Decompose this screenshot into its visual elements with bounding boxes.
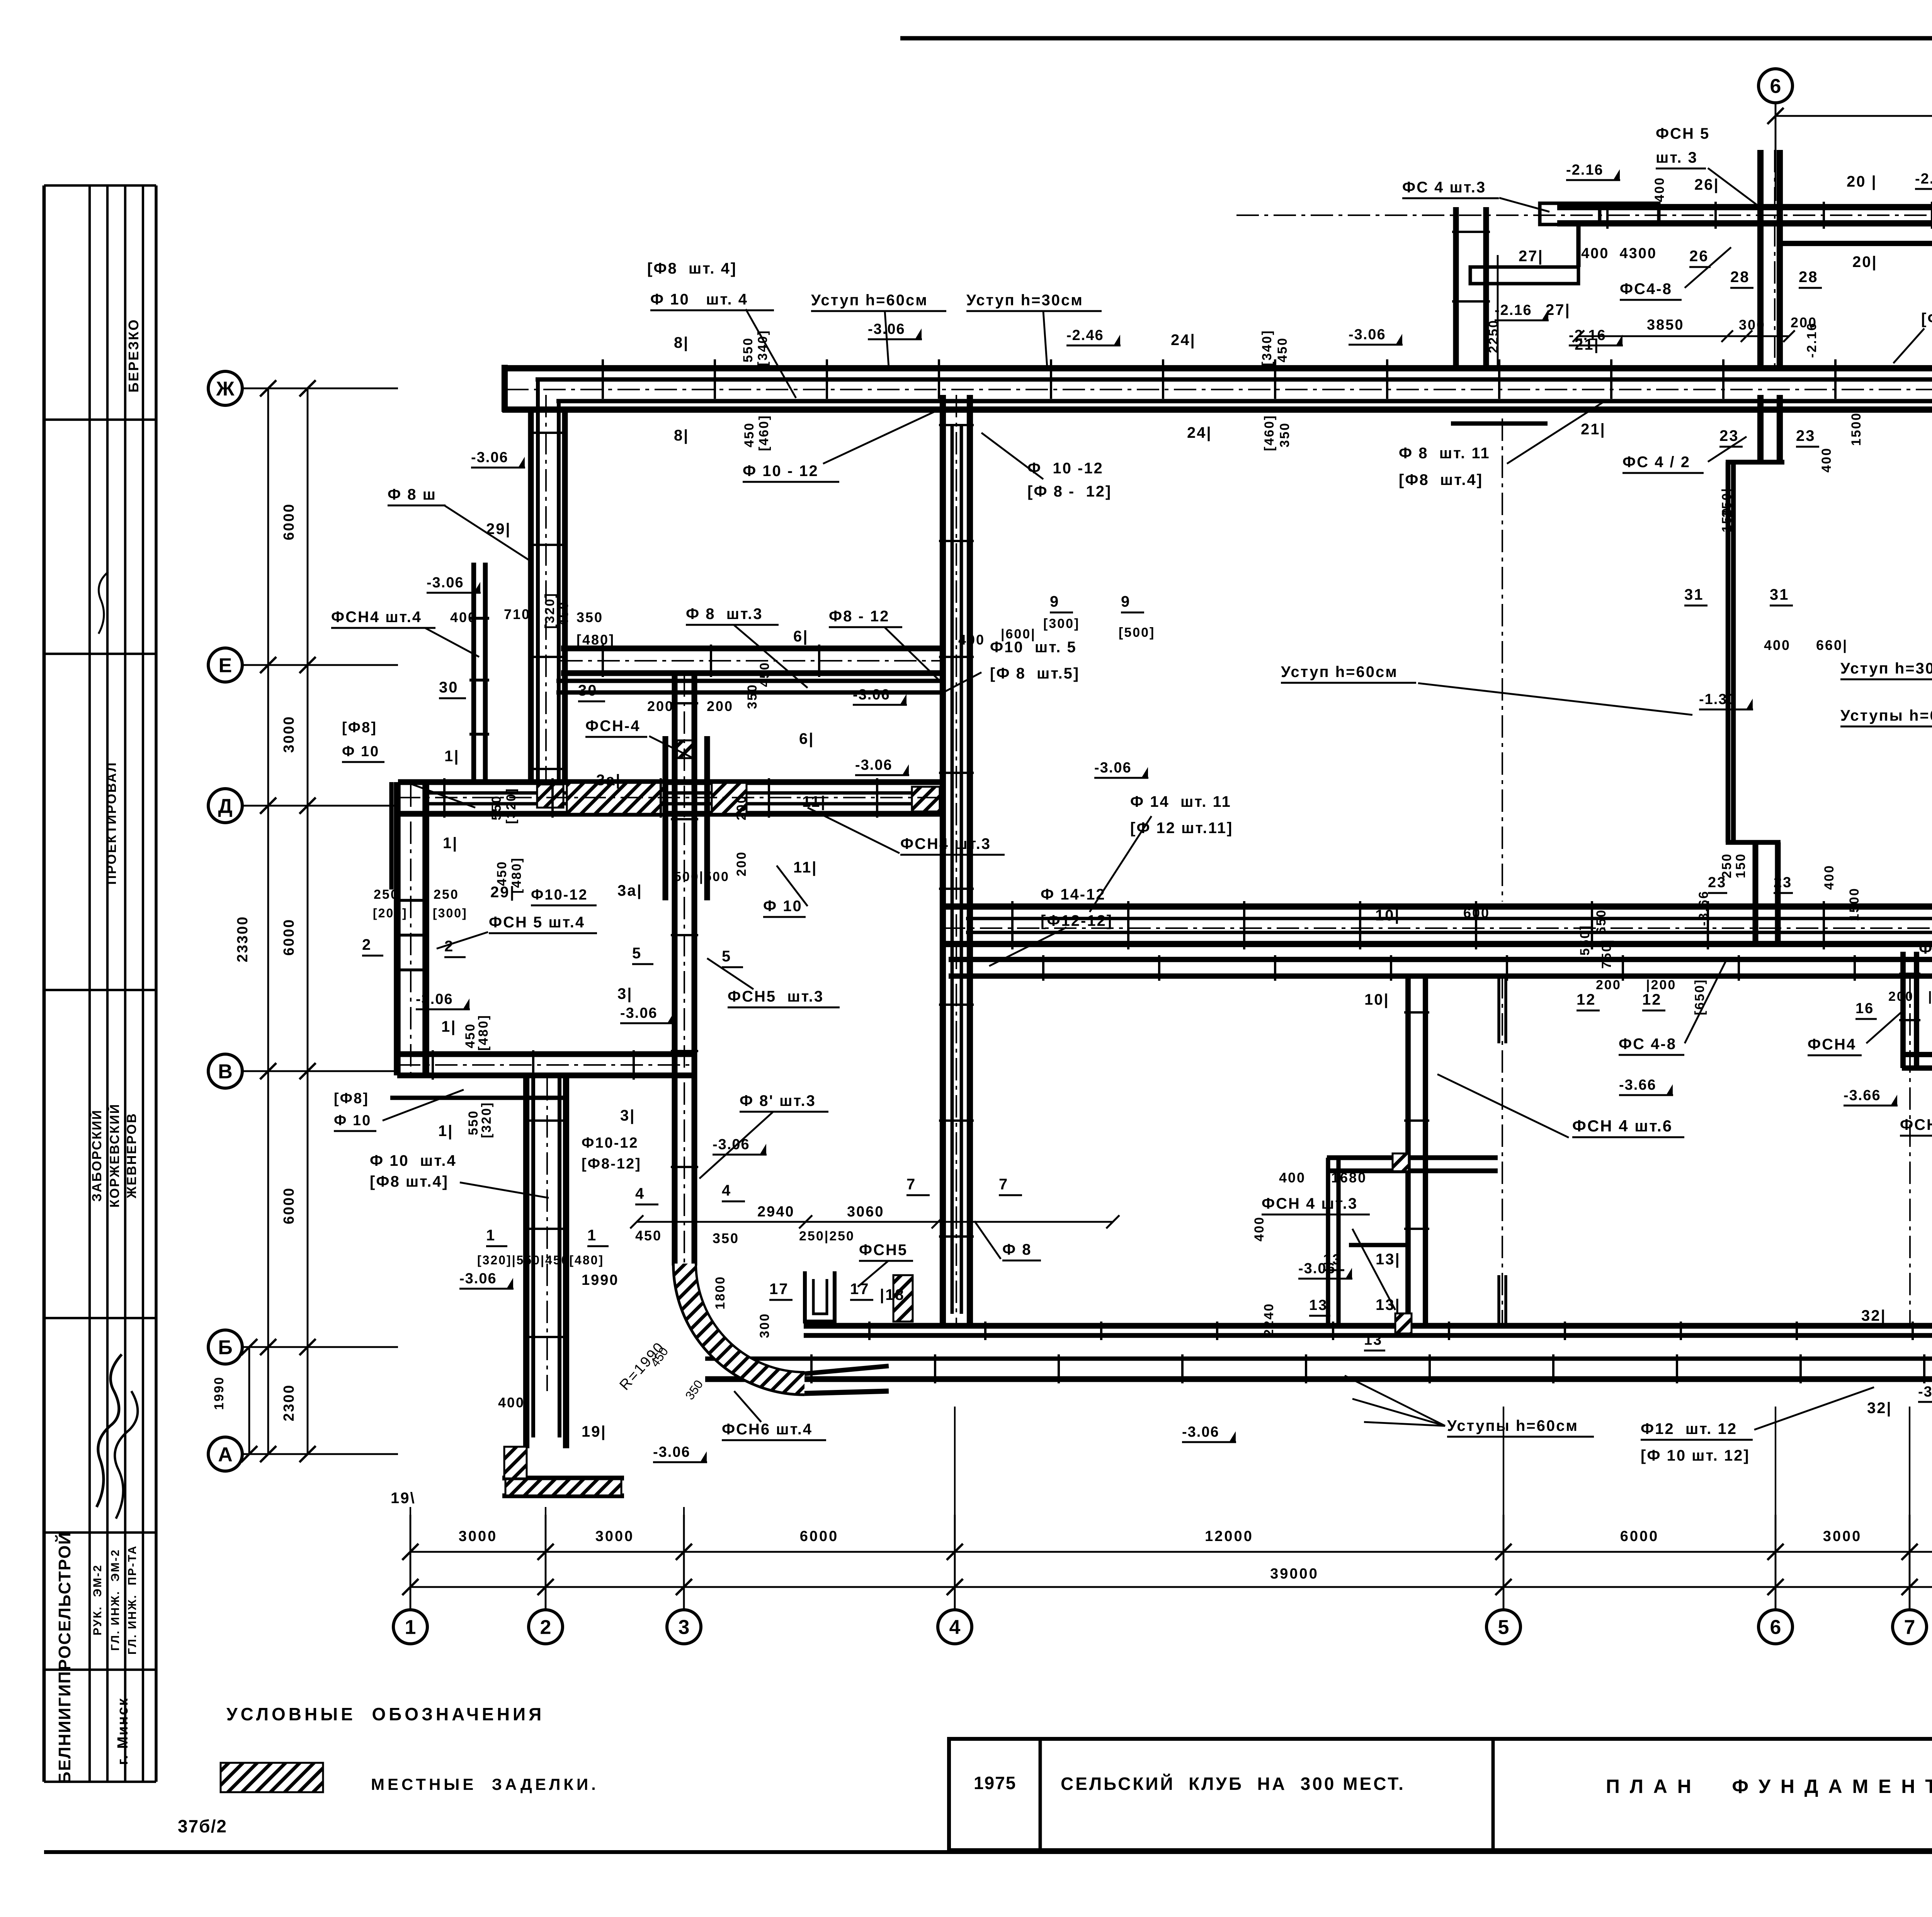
svg-text:[300]: [300] bbox=[433, 906, 468, 920]
svg-text:Ф 10 шт. 4: Ф 10 шт. 4 bbox=[650, 291, 748, 308]
svg-text:6000: 6000 bbox=[800, 1528, 839, 1544]
svg-text:250: 250 bbox=[374, 887, 399, 902]
svg-text:шт. 3: шт. 3 bbox=[1656, 149, 1698, 166]
svg-text:12: 12 bbox=[1577, 991, 1596, 1008]
svg-text:6000: 6000 bbox=[281, 503, 297, 541]
svg-text:13: 13 bbox=[1364, 1332, 1383, 1348]
svg-text:150: 150 bbox=[1733, 853, 1748, 878]
svg-text:П Л А Н Ф У Н Д А М Е Н Т: П Л А Н Ф У Н Д А М Е Н Т О В . bbox=[1606, 1776, 1932, 1797]
svg-text:ГЛ. ИНЖ. ПР-ТА: ГЛ. ИНЖ. ПР-ТА bbox=[126, 1545, 139, 1655]
svg-text:600: 600 bbox=[1463, 905, 1490, 921]
svg-text:13: 13 bbox=[1323, 1252, 1342, 1268]
svg-text:200: 200 bbox=[734, 795, 749, 820]
svg-text:[320]: [320] bbox=[479, 1102, 494, 1138]
svg-text:ФС 4-8: ФС 4-8 bbox=[1619, 1036, 1677, 1053]
svg-text:4: 4 bbox=[722, 1182, 731, 1199]
svg-text:3000: 3000 bbox=[281, 716, 297, 753]
svg-text:3а|: 3а| bbox=[596, 772, 621, 789]
svg-text:250|250: 250|250 bbox=[799, 1229, 855, 1243]
svg-text:3|: 3| bbox=[617, 985, 633, 1002]
svg-text:[Ф8 шт. 4]: [Ф8 шт. 4] bbox=[647, 260, 737, 277]
svg-text:Ф 8: Ф 8 bbox=[1002, 1241, 1032, 1258]
svg-text:400: 400 bbox=[450, 609, 477, 625]
svg-text:1500: 1500 bbox=[1847, 887, 1862, 921]
svg-text:350: 350 bbox=[745, 684, 760, 709]
svg-text:350: 350 bbox=[1277, 422, 1292, 447]
svg-text:[480]: [480] bbox=[577, 632, 615, 648]
svg-text:7: 7 bbox=[999, 1176, 1009, 1193]
svg-text:1|: 1| bbox=[441, 1018, 456, 1035]
svg-text:-2.16: -2.16 bbox=[1566, 162, 1604, 178]
svg-text:21|: 21| bbox=[1575, 336, 1600, 353]
svg-text:Уступы h=60см: Уступы h=60см bbox=[1447, 1417, 1578, 1434]
svg-text:3850: 3850 bbox=[1647, 317, 1684, 333]
svg-text:400 4300: 400 4300 bbox=[1581, 245, 1657, 262]
svg-text:3000: 3000 bbox=[459, 1528, 498, 1544]
svg-text:1|: 1| bbox=[443, 835, 458, 852]
svg-text:3060: 3060 bbox=[847, 1204, 884, 1220]
svg-text:4: 4 bbox=[635, 1185, 645, 1202]
svg-text:450: 450 bbox=[1275, 337, 1290, 362]
svg-text:19\: 19\ bbox=[391, 1490, 416, 1507]
svg-text:[500]: [500] bbox=[1119, 625, 1155, 640]
svg-text:400: 400 bbox=[1279, 1170, 1306, 1186]
svg-text:650: 650 bbox=[1594, 909, 1609, 934]
svg-text:|200: |200 bbox=[1928, 989, 1932, 1004]
svg-text:-1.30: -1.30 bbox=[1699, 691, 1736, 708]
svg-text:-3.06: -3.06 bbox=[855, 757, 893, 773]
svg-text:Ф 8' шт.3: Ф 8' шт.3 bbox=[740, 1092, 816, 1109]
svg-text:400: 400 bbox=[958, 632, 985, 648]
svg-text:г. Минск: г. Минск bbox=[115, 1697, 131, 1765]
svg-text:6: 6 bbox=[1770, 1616, 1781, 1639]
svg-text:2: 2 bbox=[444, 938, 454, 955]
svg-text:[460]: [460] bbox=[1262, 415, 1277, 451]
svg-text:РУК. ЭМ-2: РУК. ЭМ-2 bbox=[91, 1564, 104, 1636]
svg-text:13: 13 bbox=[1309, 1297, 1328, 1313]
svg-text:3000: 3000 bbox=[595, 1528, 634, 1544]
svg-text:Ж: Ж bbox=[216, 378, 235, 400]
svg-text:450: 450 bbox=[463, 1023, 478, 1048]
svg-text:Ф 10 -12: Ф 10 -12 bbox=[1027, 460, 1104, 477]
svg-text:17: 17 bbox=[850, 1281, 870, 1298]
svg-text:Д: Д bbox=[218, 795, 232, 818]
svg-text:23: 23 bbox=[1708, 874, 1726, 891]
svg-text:8|: 8| bbox=[674, 427, 689, 444]
svg-text:30: 30 bbox=[439, 679, 459, 696]
svg-text:[Ф8 шт.4]: [Ф8 шт.4] bbox=[1399, 471, 1483, 488]
svg-text:[Ф6 шт.7]: [Ф6 шт.7] bbox=[1921, 310, 1932, 327]
svg-text:5: 5 bbox=[722, 948, 731, 965]
svg-text:400: 400 bbox=[1764, 637, 1791, 653]
svg-text:[300]: [300] bbox=[1043, 616, 1080, 631]
svg-text:[340]: [340] bbox=[1260, 330, 1274, 366]
svg-text:[Ф 8 шт.5]: [Ф 8 шт.5] bbox=[990, 665, 1080, 682]
svg-text:[340]: [340] bbox=[755, 330, 770, 366]
svg-text:23: 23 bbox=[1719, 427, 1739, 444]
svg-text:КОРЖЕВСКИЙ: КОРЖЕВСКИЙ bbox=[107, 1103, 122, 1208]
svg-text:200: 200 bbox=[647, 698, 674, 714]
svg-text:37б/2: 37б/2 bbox=[178, 1816, 227, 1836]
svg-text:А: А bbox=[218, 1444, 233, 1466]
svg-text:27|: 27| bbox=[1519, 248, 1544, 265]
svg-text:19|: 19| bbox=[582, 1423, 607, 1440]
svg-text:2: 2 bbox=[362, 936, 372, 953]
svg-text:6|: 6| bbox=[799, 730, 814, 747]
svg-text:[480]: [480] bbox=[476, 1014, 491, 1051]
svg-text:1680: 1680 bbox=[1331, 1170, 1367, 1186]
svg-text:-2.16: -2.16 bbox=[1804, 322, 1819, 358]
svg-text:Ф 8 шт. 11: Ф 8 шт. 11 bbox=[1399, 445, 1490, 462]
svg-text:-3.66: -3.66 bbox=[1844, 1087, 1881, 1104]
svg-text:23300: 23300 bbox=[235, 916, 251, 963]
svg-text:|18: |18 bbox=[880, 1286, 905, 1303]
svg-text:Ф12 шт. 12: Ф12 шт. 12 bbox=[1641, 1420, 1737, 1437]
svg-text:ЖЕВНЕРОВ: ЖЕВНЕРОВ bbox=[124, 1112, 139, 1199]
svg-text:ФСН6 шт.4: ФСН6 шт.4 bbox=[722, 1421, 813, 1438]
svg-text:Ф 8 шт.3: Ф 8 шт.3 bbox=[686, 606, 763, 623]
svg-text:СЕЛЬСКИЙ КЛУБ НА 300 МЕСТ.: СЕЛЬСКИЙ КЛУБ НА 300 МЕСТ. bbox=[1061, 1774, 1405, 1794]
svg-text:Ф 10: Ф 10 bbox=[342, 743, 379, 760]
svg-text:31: 31 bbox=[1770, 586, 1789, 603]
svg-text:[Ф 8 - 12]: [Ф 8 - 12] bbox=[1027, 483, 1112, 500]
svg-text:400: 400 bbox=[498, 1395, 525, 1410]
svg-text:21|: 21| bbox=[1581, 421, 1606, 438]
svg-text:Ф 10: Ф 10 bbox=[763, 898, 803, 915]
svg-text:БЕЛНИИГИПРОСЕЛЬСТРОЙ: БЕЛНИИГИПРОСЕЛЬСТРОЙ bbox=[54, 1532, 74, 1784]
svg-text:-3.06: -3.06 bbox=[1094, 760, 1132, 776]
svg-text:1975: 1975 bbox=[974, 1773, 1016, 1793]
svg-text:-3.06: -3.06 bbox=[427, 575, 464, 591]
svg-text:Ф10-12: Ф10-12 bbox=[582, 1135, 639, 1151]
svg-text:20 |: 20 | bbox=[1847, 173, 1877, 190]
svg-text:1800: 1800 bbox=[713, 1276, 728, 1310]
svg-text:[320]|550|450[480]: [320]|550|450[480] bbox=[477, 1253, 604, 1267]
svg-text:УСЛОВНЫЕ ОБОЗНАЧЕНИЯ: УСЛОВНЫЕ ОБОЗНАЧЕНИЯ bbox=[226, 1704, 544, 1724]
svg-text:-3.06: -3.06 bbox=[1349, 327, 1386, 343]
svg-text:350: 350 bbox=[713, 1230, 739, 1246]
svg-text:750|: 750| bbox=[1599, 939, 1614, 969]
svg-text:350: 350 bbox=[577, 609, 603, 625]
svg-text:150: 150 bbox=[1719, 507, 1734, 532]
svg-text:-3.06: -3.06 bbox=[653, 1444, 690, 1460]
svg-text:13|: 13| bbox=[1376, 1296, 1401, 1313]
svg-text:ФСН5 шт.3: ФСН5 шт.3 bbox=[728, 988, 824, 1005]
svg-text:660|: 660| bbox=[1816, 637, 1848, 653]
svg-text:39000: 39000 bbox=[1270, 1566, 1319, 1582]
svg-text:9: 9 bbox=[1121, 593, 1131, 610]
svg-text:300: 300 bbox=[1739, 317, 1765, 333]
svg-text:11|: 11| bbox=[802, 793, 826, 810]
svg-text:5: 5 bbox=[1498, 1616, 1509, 1639]
svg-text:-3.06: -3.06 bbox=[471, 449, 509, 466]
svg-text:1: 1 bbox=[405, 1616, 416, 1639]
svg-text:-3.06: -3.06 bbox=[1182, 1424, 1219, 1440]
svg-text:450: 450 bbox=[742, 422, 757, 447]
svg-text:6000: 6000 bbox=[281, 919, 297, 956]
svg-text:Уступ h=30см: Уступ h=30см bbox=[1840, 660, 1932, 677]
svg-text:500|500: 500|500 bbox=[674, 869, 730, 884]
svg-text:2250: 2250 bbox=[1486, 319, 1501, 353]
svg-text:[Ф8 шт.4]: [Ф8 шт.4] bbox=[370, 1173, 449, 1190]
svg-text:-3.06: -3.06 bbox=[853, 687, 890, 703]
svg-text:3а|: 3а| bbox=[617, 882, 643, 899]
svg-text:[Ф8]: [Ф8] bbox=[342, 720, 377, 736]
svg-text:-3.66: -3.66 bbox=[1918, 1384, 1932, 1400]
svg-text:[320]: [320] bbox=[504, 788, 519, 824]
svg-text:28: 28 bbox=[1799, 269, 1818, 286]
svg-text:450: 450 bbox=[757, 662, 772, 687]
svg-text:Ф 14-12: Ф 14-12 bbox=[1041, 886, 1106, 903]
svg-text:Ф 10 шт.4: Ф 10 шт.4 bbox=[370, 1152, 457, 1169]
svg-text:Ф 10: Ф 10 bbox=[334, 1112, 371, 1129]
svg-text:[460]: [460] bbox=[757, 415, 771, 451]
svg-text:710: 710 bbox=[504, 606, 531, 622]
svg-text:31: 31 bbox=[1684, 586, 1704, 603]
svg-text:МЕСТНЫЕ ЗАДЕЛКИ.: МЕСТНЫЕ ЗАДЕЛКИ. bbox=[371, 1775, 599, 1793]
svg-text:6|: 6| bbox=[793, 628, 808, 645]
svg-text:-3.06: -3.06 bbox=[868, 321, 905, 337]
svg-text:В: В bbox=[218, 1061, 233, 1083]
svg-text:[200]: [200] bbox=[373, 906, 408, 920]
svg-text:Ф 8 ш: Ф 8 ш bbox=[388, 486, 437, 503]
svg-text:[Ф12-12]: [Ф12-12] bbox=[1041, 912, 1113, 929]
svg-text:6000: 6000 bbox=[1620, 1528, 1659, 1544]
svg-text:32|: 32| bbox=[1867, 1400, 1892, 1417]
svg-text:2940: 2940 bbox=[757, 1204, 795, 1220]
svg-text:2300: 2300 bbox=[281, 1384, 297, 1422]
svg-text:6: 6 bbox=[1770, 75, 1781, 98]
svg-text:Уступ h=30см: Уступ h=30см bbox=[966, 292, 1083, 309]
svg-text:20|: 20| bbox=[1852, 253, 1878, 270]
svg-text:ФСН5: ФСН5 bbox=[859, 1242, 908, 1259]
svg-text:1500: 1500 bbox=[1849, 412, 1864, 446]
svg-text:ФСН4 шт.3: ФСН4 шт.3 bbox=[900, 835, 991, 852]
svg-text:26: 26 bbox=[1689, 248, 1709, 265]
svg-text:400: 400 bbox=[1252, 1216, 1267, 1242]
svg-text:-2.46: -2.46 bbox=[1066, 327, 1104, 344]
svg-text:Ф 10 - 12: Ф 10 - 12 bbox=[743, 463, 819, 480]
svg-text:7: 7 bbox=[906, 1176, 916, 1193]
svg-text:-3.06: -3.06 bbox=[416, 991, 453, 1007]
svg-text:250: 250 bbox=[434, 887, 459, 902]
svg-text:Уступ h=60см: Уступ h=60см bbox=[1281, 663, 1398, 680]
svg-text:550: 550 bbox=[466, 1110, 481, 1135]
svg-text:29|: 29| bbox=[486, 520, 511, 538]
svg-text:[Ф 12 шт.11]: [Ф 12 шт.11] bbox=[1130, 820, 1233, 837]
svg-text:12: 12 bbox=[1642, 991, 1662, 1008]
svg-text:450: 450 bbox=[556, 601, 571, 626]
svg-text:400: 400 bbox=[1819, 447, 1834, 473]
svg-text:1: 1 bbox=[486, 1227, 496, 1244]
svg-text:Уступ h=60см: Уступ h=60см bbox=[811, 292, 928, 309]
svg-text:ЗАБОРСКИЙ: ЗАБОРСКИЙ bbox=[89, 1109, 104, 1202]
svg-text:|200: |200 bbox=[1646, 978, 1676, 992]
svg-text:13|: 13| bbox=[1376, 1251, 1401, 1268]
svg-text:200: 200 bbox=[707, 698, 733, 714]
svg-text:Ф8 - 12: Ф8 - 12 bbox=[829, 608, 889, 625]
svg-text:3: 3 bbox=[679, 1616, 690, 1639]
svg-text:450: 450 bbox=[495, 861, 509, 886]
svg-text:ПРОЕКТИРОВАЛ: ПРОЕКТИРОВАЛ bbox=[104, 762, 119, 885]
svg-text:[650]: [650] bbox=[1692, 979, 1707, 1015]
svg-text:1|: 1| bbox=[438, 1123, 453, 1140]
svg-text:-3.66: -3.66 bbox=[1696, 890, 1711, 926]
svg-text:400: 400 bbox=[1822, 864, 1837, 890]
svg-text:Б: Б bbox=[218, 1337, 232, 1359]
svg-text:ФСН4: ФСН4 bbox=[1808, 1036, 1856, 1053]
svg-text:Ф10 шт. 5: Ф10 шт. 5 bbox=[990, 639, 1077, 656]
svg-text:ФСН6 шт5: ФСН6 шт5 bbox=[1900, 1116, 1932, 1133]
svg-text:16: 16 bbox=[1855, 1000, 1874, 1017]
svg-text:-3.06: -3.06 bbox=[713, 1136, 750, 1153]
svg-text:-3.06: -3.06 bbox=[620, 1005, 658, 1021]
svg-text:1990: 1990 bbox=[212, 1376, 226, 1410]
svg-text:17: 17 bbox=[769, 1281, 789, 1298]
svg-text:5: 5 bbox=[632, 945, 642, 962]
svg-text:Е: Е bbox=[219, 655, 232, 677]
svg-text:ФСН-4: ФСН-4 bbox=[585, 718, 640, 735]
svg-text:1: 1 bbox=[587, 1227, 597, 1244]
svg-text:10|: 10| bbox=[1375, 907, 1400, 924]
svg-text:[Ф 10 шт. 12]: [Ф 10 шт. 12] bbox=[1641, 1447, 1750, 1464]
svg-text:300: 300 bbox=[757, 1313, 772, 1338]
svg-text:Уступы h=60см: Уступы h=60см bbox=[1840, 707, 1932, 724]
svg-text:26|: 26| bbox=[1694, 176, 1719, 193]
svg-text:27|: 27| bbox=[1546, 301, 1571, 318]
svg-text:12000: 12000 bbox=[1205, 1528, 1253, 1544]
svg-text:ГЛ. ИНЖ. ЭМ-2: ГЛ. ИНЖ. ЭМ-2 bbox=[109, 1549, 122, 1651]
svg-text:1990: 1990 bbox=[582, 1272, 619, 1288]
svg-text:200: 200 bbox=[1596, 978, 1621, 992]
svg-text:6000: 6000 bbox=[281, 1187, 297, 1225]
svg-text:23: 23 bbox=[1796, 427, 1816, 444]
svg-text:7: 7 bbox=[1904, 1616, 1915, 1639]
svg-text:ФСН 4 шт.3: ФСН 4 шт.3 bbox=[1262, 1195, 1358, 1212]
svg-text:ФСН4 шт.4: ФСН4 шт.4 bbox=[331, 609, 422, 626]
svg-text:30: 30 bbox=[578, 682, 598, 699]
svg-text:200: 200 bbox=[734, 851, 749, 876]
svg-text:9: 9 bbox=[1050, 593, 1060, 610]
svg-text:4: 4 bbox=[949, 1616, 961, 1639]
svg-text:ФС 4 / 2: ФС 4 / 2 bbox=[1622, 454, 1690, 471]
svg-text:-3.66: -3.66 bbox=[1619, 1077, 1656, 1093]
svg-text:10|: 10| bbox=[1364, 991, 1389, 1008]
svg-text:1|: 1| bbox=[444, 748, 459, 765]
svg-text:ФСН 4 шт.6: ФСН 4 шт.6 bbox=[1572, 1117, 1673, 1135]
svg-text:-2.16: -2.16 bbox=[1915, 171, 1932, 187]
svg-text:29|: 29| bbox=[490, 884, 515, 901]
svg-text:550: 550 bbox=[741, 337, 755, 362]
svg-text:2240: 2240 bbox=[1262, 1303, 1276, 1337]
svg-text:ФСН 5: ФСН 5 bbox=[1656, 125, 1710, 142]
svg-text:-2.16: -2.16 bbox=[1495, 302, 1532, 318]
svg-text:[Ф8]: [Ф8] bbox=[334, 1090, 369, 1107]
svg-text:[Ф8-12]: [Ф8-12] bbox=[582, 1156, 641, 1172]
svg-text:450: 450 bbox=[635, 1228, 662, 1243]
svg-text:ФС 4 шт.3: ФС 4 шт.3 bbox=[1402, 179, 1486, 196]
svg-text:24|: 24| bbox=[1187, 424, 1212, 441]
svg-text:ФСН4 шт.3: ФСН4 шт.3 bbox=[1919, 940, 1932, 957]
svg-text:11|: 11| bbox=[793, 859, 817, 876]
svg-text:23: 23 bbox=[1774, 874, 1792, 891]
svg-text:8|: 8| bbox=[674, 334, 689, 351]
svg-text:БЕРЕЗКО: БЕРЕЗКО bbox=[126, 318, 141, 392]
svg-text:[320]: [320] bbox=[543, 592, 557, 629]
svg-text:ФСН 5 шт.4: ФСН 5 шт.4 bbox=[489, 914, 585, 931]
svg-text:200: 200 bbox=[1888, 989, 1914, 1004]
svg-text:28: 28 bbox=[1730, 269, 1750, 286]
svg-text:[550]: [550] bbox=[1578, 925, 1592, 961]
svg-text:550: 550 bbox=[489, 795, 504, 820]
svg-text:-3.06: -3.06 bbox=[459, 1271, 497, 1287]
svg-text:Ф 14 шт. 11: Ф 14 шт. 11 bbox=[1130, 793, 1231, 810]
svg-text:2: 2 bbox=[540, 1616, 551, 1639]
svg-text:32|: 32| bbox=[1861, 1307, 1886, 1324]
svg-text:3000: 3000 bbox=[1823, 1528, 1862, 1544]
svg-text:Ф10-12: Ф10-12 bbox=[531, 887, 588, 903]
svg-text:24|: 24| bbox=[1171, 332, 1196, 349]
svg-text:ФС4-8: ФС4-8 bbox=[1620, 281, 1672, 298]
svg-text:3|: 3| bbox=[620, 1107, 635, 1124]
svg-text:400: 400 bbox=[1652, 177, 1667, 202]
